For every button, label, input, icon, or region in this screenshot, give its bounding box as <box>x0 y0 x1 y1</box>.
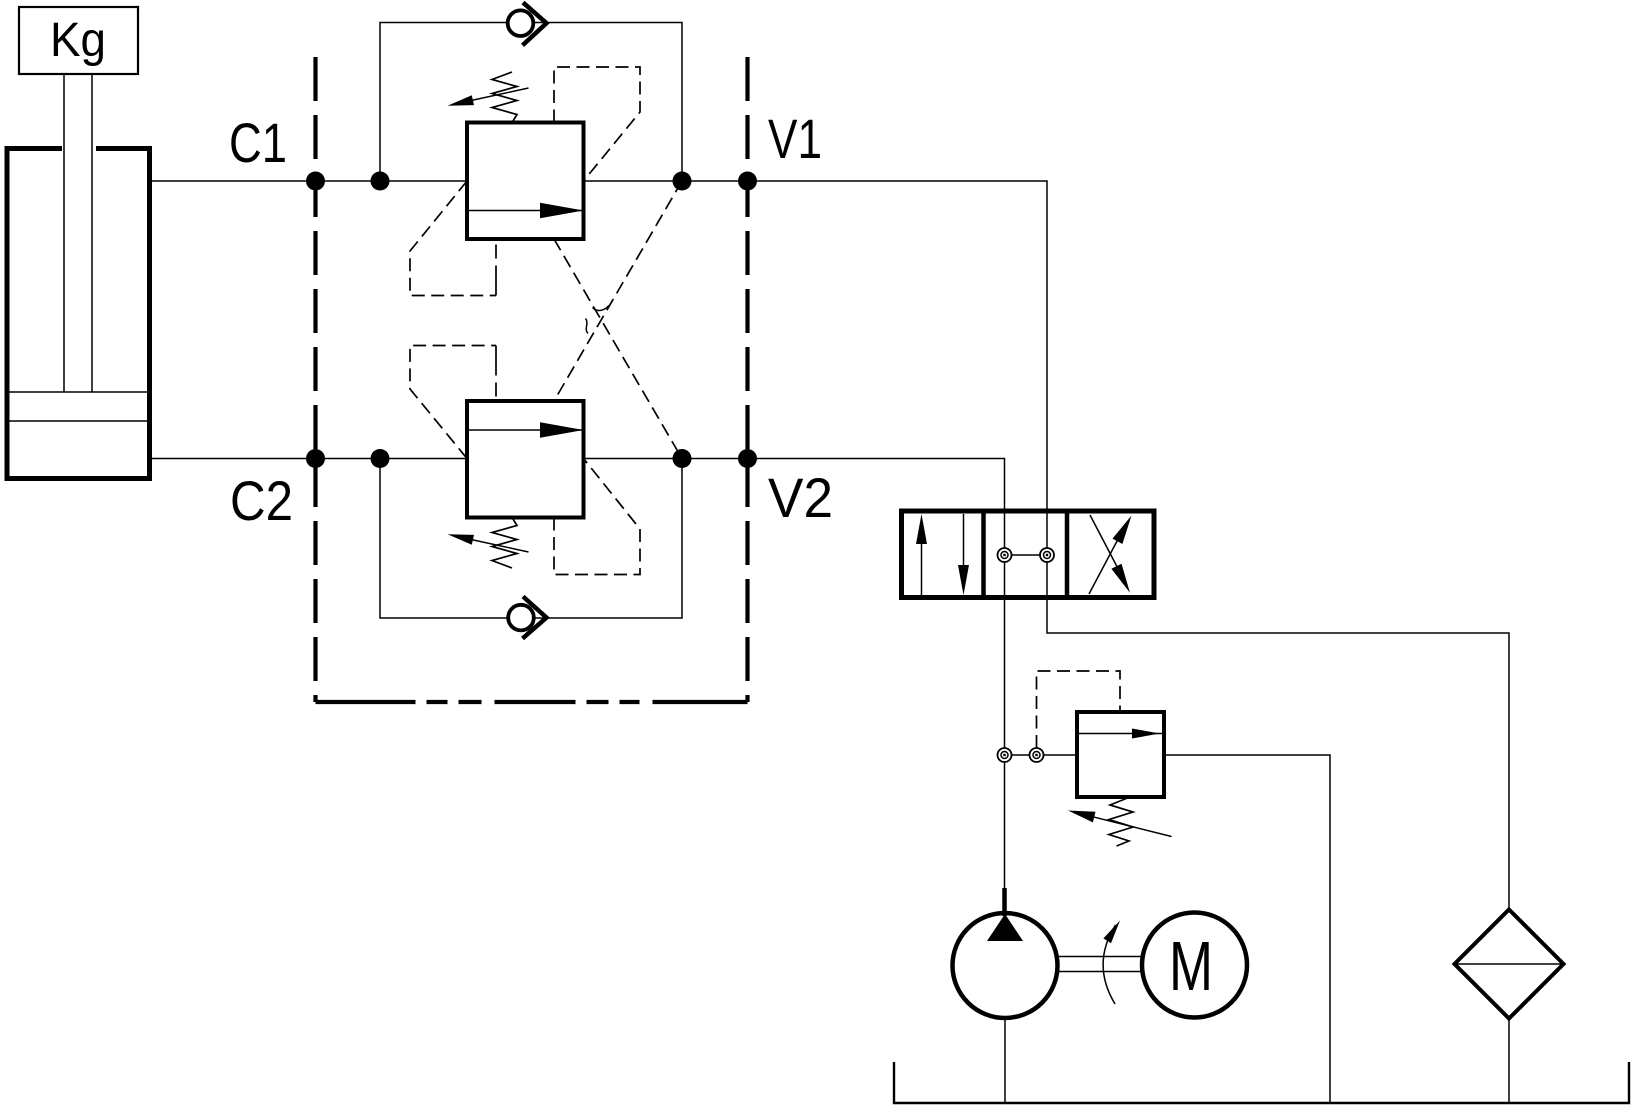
svg-text:C1: C1 <box>229 111 287 174</box>
wire bypass top <box>380 23 682 182</box>
wire pump to relief <box>1005 754 1078 756</box>
node C2 boundary <box>306 449 325 468</box>
motor M1 <box>1142 913 1247 1018</box>
svg-text:M: M <box>1169 927 1213 1005</box>
counterbalance valve CB1 pilot lower left <box>410 181 496 296</box>
pilot cross line A <box>554 181 682 401</box>
load box Kg <box>19 7 138 74</box>
svg-text:C2: C2 <box>230 469 293 532</box>
check valve CV2 <box>508 597 546 639</box>
counterbalance valve CB2 pilot lower right <box>554 459 640 575</box>
pilot cross line B <box>554 239 682 459</box>
node V2 inner <box>673 449 692 468</box>
pilot crossing hop <box>586 306 610 334</box>
node C2 bypass <box>371 449 390 468</box>
wire V1 to filter <box>748 181 1510 910</box>
directional valve DV1 centre position ports <box>998 548 1055 562</box>
cylinder body <box>5 146 153 481</box>
counterbalance valve CB1 pilot upper right <box>554 67 640 181</box>
relief valve RV1 body <box>1077 712 1164 797</box>
relief valve RV1 spring <box>1068 798 1172 846</box>
counterbalance valve CB2 pilot upper left <box>410 346 496 459</box>
directional valve DV1 left position arrows <box>916 514 969 595</box>
tank <box>894 1062 1629 1103</box>
wire filter to tank <box>1508 1019 1510 1104</box>
cylinder rod <box>64 74 92 392</box>
wire pump suction <box>1004 1018 1006 1103</box>
node V2 boundary <box>738 449 757 468</box>
rotation arrow <box>1103 921 1120 1005</box>
filter F1 <box>1455 910 1564 1019</box>
port symbol on pump line <box>998 748 1012 762</box>
node C1 boundary <box>306 172 325 191</box>
node V1 boundary <box>738 172 757 191</box>
wire bypass bottom <box>380 459 682 619</box>
wire C1 line <box>152 180 467 182</box>
node C1 bypass <box>371 172 390 191</box>
wire CB1 to V1 <box>584 180 748 182</box>
directional valve DV1 body <box>902 511 1155 598</box>
svg-text:V2: V2 <box>768 466 833 529</box>
wire relief to tank <box>1164 755 1330 1103</box>
drive shaft <box>1058 957 1142 972</box>
enclosure boundary left <box>313 57 317 702</box>
wire C2 line <box>152 458 467 460</box>
counterbalance valve CB2 body <box>467 401 584 518</box>
svg-text:V1: V1 <box>768 107 822 170</box>
enclosure boundary bottom <box>316 700 748 704</box>
cylinder piston <box>10 392 148 421</box>
wire CB2 to V2 <box>584 458 748 460</box>
counterbalance valve CB1 spring <box>448 72 529 121</box>
enclosure boundary right <box>745 57 749 702</box>
check valve CV1 <box>508 3 547 46</box>
wire V2 to pump <box>748 459 1005 914</box>
counterbalance valve CB2 spring <box>448 519 529 568</box>
node V1 inner <box>673 172 692 191</box>
counterbalance valve CB1 body <box>467 123 584 240</box>
directional valve DV1 right position crossed arrows <box>1089 515 1132 594</box>
relief valve RV1 pilot <box>1037 671 1121 748</box>
pump P1 <box>953 888 1058 1018</box>
port symbol relief inlet <box>1030 748 1044 762</box>
svg-text:Kg: Kg <box>50 14 106 67</box>
